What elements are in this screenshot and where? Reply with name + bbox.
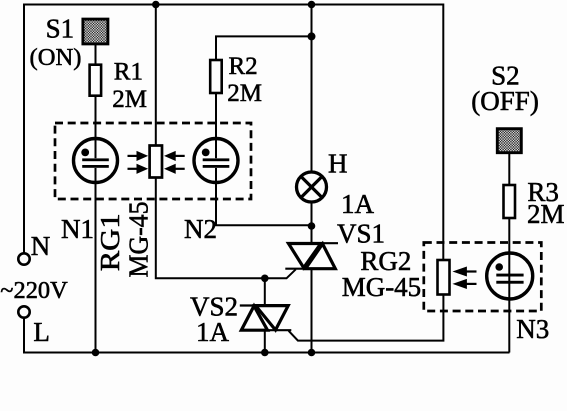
wire N2 to main vertical — [216, 182, 312, 226]
lamp N1 — [74, 139, 118, 183]
svg-text:N3: N3 — [516, 314, 549, 344]
wire RG1 to VS1 gate — [156, 178, 296, 279]
svg-text:RG1: RG1 — [95, 213, 125, 271]
svg-text:N1: N1 — [61, 214, 94, 244]
wire R1 to N1 — [95, 96, 97, 140]
lamp N3 — [487, 253, 533, 299]
triac VS1 — [285, 243, 338, 269]
resistor R1 — [90, 65, 102, 96]
triac VS2 — [240, 306, 291, 331]
svg-text:(ON): (ON) — [30, 44, 82, 71]
junction dot VS1/bottom rail — [308, 349, 316, 357]
svg-text:S1: S1 — [46, 14, 75, 44]
svg-text:1A: 1A — [341, 189, 375, 219]
wire left rail — [23, 4, 25, 254]
wire S1 to R1 — [95, 43, 97, 64]
photoresistor RG2 — [438, 260, 450, 295]
resistor R3 — [504, 185, 516, 218]
svg-text:MG-45: MG-45 — [124, 202, 154, 278]
switch S2 touch plate — [497, 129, 521, 153]
wire R2 to N2 — [215, 93, 217, 140]
node L terminal — [18, 306, 29, 317]
wire N1 to bottom rail — [95, 182, 97, 353]
svg-text:(OFF): (OFF) — [471, 86, 539, 116]
optocoupler box RG2 — [424, 243, 542, 312]
junction dot N1/bottom rail — [92, 349, 100, 357]
svg-text:L: L — [33, 317, 50, 347]
wire top rail — [23, 4, 443, 6]
svg-text:2M: 2M — [112, 86, 147, 113]
lamp N2 — [194, 139, 238, 183]
svg-text:MG-45: MG-45 — [342, 272, 422, 302]
arrows into RG1 left — [128, 153, 146, 173]
svg-text:2M: 2M — [527, 199, 565, 229]
svg-text:H: H — [328, 149, 348, 179]
svg-text:N: N — [31, 231, 51, 261]
junction dot VS2 branch — [261, 275, 269, 283]
lamp H — [297, 172, 327, 202]
svg-text:1A: 1A — [196, 317, 230, 347]
wire R2 branch — [216, 36, 312, 60]
wire main vertical (top to lamp) — [311, 5, 313, 174]
resistor R2 — [210, 60, 222, 93]
wire S2 to R3 — [508, 152, 510, 185]
junction dot N2 wire / main vertical — [308, 222, 316, 230]
arrows into RG1 right — [167, 153, 185, 173]
wire VS2 top lead — [264, 278, 266, 306]
wire VS2 gate to RG2 — [289, 295, 444, 341]
node N terminal — [18, 253, 29, 264]
svg-text:VS1: VS1 — [337, 219, 385, 249]
svg-text:N2: N2 — [184, 214, 217, 244]
wire VS2 to bottom rail — [264, 330, 266, 352]
arrows into RG2 right — [456, 268, 477, 287]
junction dot top rail / RG1 — [152, 1, 160, 9]
photoresistor RG1 — [150, 146, 162, 178]
svg-text:R2: R2 — [229, 53, 258, 80]
wire top rail to RG1 photoresistor — [155, 5, 157, 147]
wire L to bottom rail — [24, 318, 510, 353]
svg-text:R1: R1 — [114, 58, 143, 85]
optocoupler box RG1 — [55, 123, 251, 199]
junction dot top rail / main vertical — [308, 1, 316, 9]
svg-text:~220V: ~220V — [0, 277, 68, 304]
wire VS1 to bottom rail — [311, 269, 313, 353]
wire R3 through N3 to bottom rail — [508, 218, 510, 353]
junction dot VS2/bottom rail — [261, 349, 269, 357]
junction dot R2 tap — [308, 32, 316, 40]
switch S1 touch plate — [83, 19, 108, 44]
wire right rail — [442, 4, 444, 261]
wire lamp to VS1 — [311, 202, 313, 243]
svg-text:2M: 2M — [227, 80, 262, 107]
